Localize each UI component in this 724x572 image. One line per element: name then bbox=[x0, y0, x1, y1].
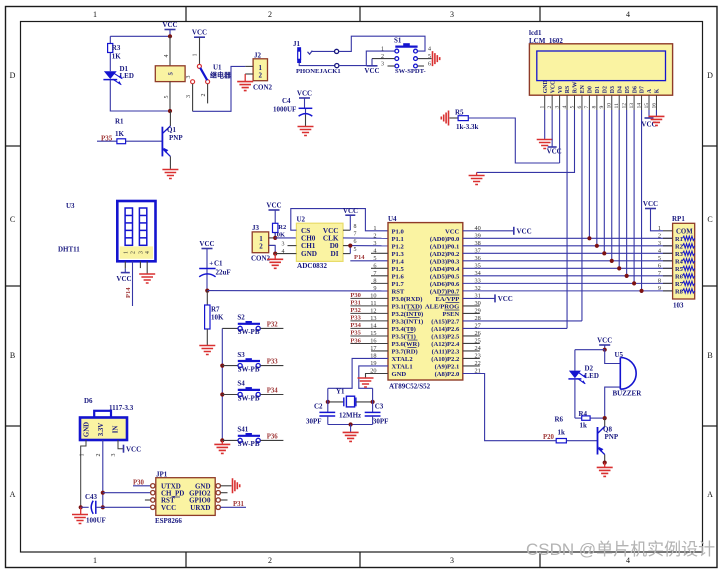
svg-text:30PF: 30PF bbox=[306, 417, 322, 425]
LED D1 bbox=[103, 53, 134, 86]
svg-text:VCC: VCC bbox=[126, 445, 141, 453]
IC U2 ADC0832 bbox=[296, 216, 343, 271]
svg-text:2: 2 bbox=[658, 232, 661, 239]
wire P30 to ESP UTXD bbox=[133, 485, 150, 487]
svg-text:3: 3 bbox=[450, 556, 454, 565]
svg-text:3: 3 bbox=[186, 95, 192, 98]
resistor R1 1K bbox=[97, 118, 162, 144]
power VCC (S1 pin2) bbox=[364, 59, 394, 76]
power VCC (buzzer) bbox=[597, 337, 612, 350]
wire LCD R/W to ground bbox=[469, 110, 575, 185]
svg-text:R/W: R/W bbox=[573, 81, 579, 93]
svg-text:GND: GND bbox=[543, 80, 549, 93]
svg-text:V0: V0 bbox=[558, 86, 564, 93]
power VCC (DHT11 pin1) bbox=[116, 261, 131, 283]
svg-text:1K: 1K bbox=[112, 53, 122, 61]
switch S2 SW-PB bbox=[222, 314, 283, 337]
svg-text:VCC: VCC bbox=[161, 504, 176, 512]
svg-text:1k: 1k bbox=[580, 422, 588, 430]
svg-text:P3.6(WR): P3.6(WR) bbox=[392, 341, 420, 348]
svg-text:22uF: 22uF bbox=[216, 269, 231, 277]
svg-text:DI: DI bbox=[331, 250, 339, 258]
resistor R3 1K bbox=[108, 36, 122, 60]
svg-text:R3: R3 bbox=[675, 251, 683, 258]
svg-text:24: 24 bbox=[475, 345, 482, 352]
ground (DHT11 pin4) bbox=[139, 261, 155, 283]
svg-text:R5: R5 bbox=[675, 266, 683, 273]
svg-text:1k: 1k bbox=[558, 429, 566, 437]
wire P2.6 to LCD RS bbox=[463, 327, 567, 329]
U4 pin name texts bbox=[392, 228, 461, 378]
svg-text:VCC: VCC bbox=[643, 200, 658, 208]
svg-text:IN: IN bbox=[113, 426, 120, 434]
wire VCC rail to R3 branch bbox=[110, 35, 170, 37]
svg-text:6: 6 bbox=[373, 262, 376, 269]
power VCC (R2) bbox=[266, 202, 281, 224]
svg-text:7: 7 bbox=[354, 232, 357, 238]
svg-text:15: 15 bbox=[644, 103, 650, 109]
junction node (Q8 emitter) bbox=[603, 461, 607, 465]
svg-text:7: 7 bbox=[658, 270, 661, 277]
svg-text:4: 4 bbox=[282, 249, 285, 255]
svg-text:C4: C4 bbox=[282, 97, 291, 105]
svg-text:U1: U1 bbox=[213, 64, 222, 72]
regulator D6 1117-3.3 bbox=[80, 397, 134, 440]
svg-text:5: 5 bbox=[373, 255, 376, 262]
svg-text:ALE/PROG: ALE/PROG bbox=[425, 304, 459, 311]
svg-text:PNP: PNP bbox=[605, 433, 619, 441]
ground (Q8) bbox=[597, 463, 613, 477]
wire RST net to U4 pin9 bbox=[207, 290, 388, 292]
power VCC (relay switch) bbox=[192, 29, 207, 65]
svg-text:(AD5)P0.5: (AD5)P0.5 bbox=[430, 273, 460, 280]
svg-text:R1: R1 bbox=[115, 118, 124, 126]
svg-text:2: 2 bbox=[373, 232, 376, 239]
D6 pin2 wire (3.3V) bbox=[96, 440, 103, 507]
svg-text:URXD: URXD bbox=[190, 504, 210, 512]
svg-text:P1.7: P1.7 bbox=[392, 281, 405, 288]
svg-text:R3: R3 bbox=[112, 44, 121, 52]
ground (R7) bbox=[199, 346, 215, 355]
resistor R6 1k bbox=[555, 416, 598, 443]
svg-text:(AD7)P0.7: (AD7)P0.7 bbox=[430, 288, 460, 295]
svg-text:RS: RS bbox=[565, 86, 571, 93]
svg-text:P32: P32 bbox=[267, 322, 279, 329]
svg-text:P20: P20 bbox=[543, 434, 555, 441]
svg-text:25: 25 bbox=[475, 338, 481, 345]
power ground (ESP GND, sideways) bbox=[220, 478, 239, 493]
wire button common bus bbox=[221, 328, 223, 440]
svg-text:P1.1: P1.1 bbox=[392, 236, 404, 243]
svg-text:AT89C52/S52: AT89C52/S52 bbox=[389, 383, 431, 391]
svg-text:VCC: VCC bbox=[266, 202, 281, 210]
LCD data bus verticals D0-D7 bbox=[589, 110, 641, 291]
svg-text:4: 4 bbox=[428, 47, 431, 53]
svg-text:U4: U4 bbox=[388, 215, 397, 223]
svg-text:6: 6 bbox=[354, 239, 357, 245]
svg-text:1: 1 bbox=[381, 47, 384, 53]
svg-text:(A11)P2.3: (A11)P2.3 bbox=[432, 349, 460, 356]
svg-text:3: 3 bbox=[186, 76, 192, 79]
junction node (D0/DI) bbox=[348, 244, 352, 248]
svg-text:P3.0(RXD): P3.0(RXD) bbox=[392, 296, 423, 303]
svg-text:5: 5 bbox=[354, 247, 357, 253]
switch S3 SW-PB bbox=[222, 351, 283, 374]
svg-text:1: 1 bbox=[540, 106, 546, 109]
svg-text:5: 5 bbox=[658, 255, 661, 262]
svg-text:6: 6 bbox=[428, 62, 431, 68]
U4 P3 stub wires with net labels bbox=[350, 292, 388, 344]
capacitor C2 30PF bbox=[306, 388, 335, 425]
svg-text:3.3V: 3.3V bbox=[98, 423, 105, 436]
svg-text:SW-PB: SW-PB bbox=[238, 440, 260, 448]
svg-text:D: D bbox=[10, 71, 16, 80]
junction node (GND row) bbox=[273, 252, 277, 256]
svg-text:VCC: VCC bbox=[199, 240, 214, 248]
svg-text:14: 14 bbox=[636, 103, 642, 109]
ESP GPIO0 stub bbox=[220, 499, 227, 501]
capacitor C1 22uF bbox=[199, 259, 230, 290]
svg-text:U2: U2 bbox=[297, 216, 306, 224]
ground (Q1 emitter) bbox=[162, 170, 178, 179]
ground (U4 GND pin20) bbox=[358, 373, 389, 387]
svg-text:EN: EN bbox=[580, 84, 586, 93]
svg-text:GND: GND bbox=[301, 250, 317, 258]
svg-text:C: C bbox=[707, 215, 712, 224]
svg-text:VCC: VCC bbox=[550, 81, 556, 94]
svg-text:13: 13 bbox=[629, 103, 635, 109]
svg-text:4: 4 bbox=[626, 10, 630, 19]
ground (C4) bbox=[298, 127, 314, 136]
svg-text:D6: D6 bbox=[632, 86, 638, 93]
svg-text:DHT11: DHT11 bbox=[58, 246, 80, 254]
svg-text:RST: RST bbox=[392, 288, 405, 295]
ground (LCD pin1) bbox=[537, 110, 553, 149]
svg-text:3: 3 bbox=[450, 10, 454, 19]
svg-text:2: 2 bbox=[381, 54, 384, 60]
svg-text:GND: GND bbox=[84, 422, 91, 437]
svg-text:2: 2 bbox=[268, 556, 272, 565]
wire U2 D0/DI to U4 P1.2 bbox=[343, 246, 388, 254]
svg-text:K: K bbox=[655, 88, 661, 93]
junction node (R4/buzzer/Q8) bbox=[603, 416, 607, 420]
svg-text:9: 9 bbox=[599, 106, 605, 109]
transistor Q8 PNP bbox=[598, 418, 619, 463]
svg-text:3: 3 bbox=[138, 251, 144, 254]
svg-text:P31: P31 bbox=[350, 300, 360, 307]
svg-text:P35: P35 bbox=[350, 330, 361, 337]
LED D2 bbox=[568, 350, 599, 418]
phone jack J1 bbox=[293, 40, 341, 75]
wire LCD EN down to P2.7 row bbox=[581, 110, 583, 321]
svg-text:17: 17 bbox=[370, 345, 376, 352]
svg-text:9: 9 bbox=[658, 285, 661, 292]
ground (LCD pin16 K) bbox=[648, 110, 664, 125]
svg-text:6: 6 bbox=[658, 262, 661, 269]
svg-text:Y1: Y1 bbox=[336, 388, 345, 396]
svg-text:VCC: VCC bbox=[364, 67, 379, 75]
wire LCD V0 to R5 bbox=[559, 110, 561, 163]
junction nodes (button bus) bbox=[220, 364, 224, 368]
relay U1 switch contacts bbox=[186, 64, 232, 104]
svg-text:VCC: VCC bbox=[116, 275, 131, 283]
transistor Q1 PNP bbox=[162, 111, 183, 169]
svg-text:12: 12 bbox=[621, 103, 627, 109]
svg-text:U3: U3 bbox=[66, 202, 75, 210]
wire LCD RS down to P2.6 row bbox=[566, 110, 568, 328]
power ground (S1 pin5, sideways) bbox=[433, 51, 440, 66]
svg-text:(A12)P2.4: (A12)P2.4 bbox=[431, 341, 460, 348]
svg-text:P3.1(TXD): P3.1(TXD) bbox=[392, 304, 423, 311]
svg-text:1k-3.3k: 1k-3.3k bbox=[456, 123, 478, 131]
svg-text:R4: R4 bbox=[675, 258, 684, 265]
svg-text:2: 2 bbox=[201, 94, 207, 97]
power VCC (LCD pin2) bbox=[547, 110, 562, 156]
svg-text:(AD2)P0.2: (AD2)P0.2 bbox=[430, 251, 460, 258]
svg-text:P34: P34 bbox=[267, 388, 279, 395]
svg-text:lcd1: lcd1 bbox=[529, 29, 542, 37]
svg-text:B: B bbox=[707, 351, 712, 360]
D6 pin1 wire (GND) bbox=[80, 440, 87, 507]
crystal Y1 12MHz bbox=[328, 388, 373, 420]
capacitor C4 1000UF bbox=[273, 97, 312, 126]
svg-text:P1.4: P1.4 bbox=[392, 258, 405, 265]
svg-text:2: 2 bbox=[547, 106, 553, 109]
U4 pin name overlines bbox=[407, 295, 459, 348]
svg-text:SW-PB: SW-PB bbox=[238, 394, 260, 402]
svg-text:P1.6: P1.6 bbox=[392, 273, 405, 280]
svg-text:P14: P14 bbox=[354, 254, 365, 261]
svg-text:30PF: 30PF bbox=[373, 417, 389, 425]
svg-text:CON2: CON2 bbox=[253, 84, 273, 92]
junction node (bottom rail) bbox=[349, 422, 353, 426]
svg-text:SW-PB: SW-PB bbox=[238, 365, 260, 373]
svg-text:1: 1 bbox=[373, 225, 376, 232]
svg-text:D4: D4 bbox=[617, 86, 623, 93]
svg-text:26: 26 bbox=[475, 330, 481, 337]
svg-text:GND: GND bbox=[392, 371, 407, 378]
svg-text:(A9)P2.1: (A9)P2.1 bbox=[435, 364, 460, 371]
power VCC (C1) bbox=[199, 240, 214, 276]
junction nodes (LCD data to P0 bus) bbox=[587, 236, 643, 293]
svg-text:23: 23 bbox=[475, 353, 481, 360]
svg-text:VCC: VCC bbox=[297, 90, 312, 98]
junction nodes (crystal) bbox=[326, 400, 330, 404]
svg-text:1: 1 bbox=[93, 556, 97, 565]
D6 pin3 to VCC bbox=[111, 440, 141, 457]
wire J3-1 to U2 CH0 bbox=[275, 237, 296, 239]
svg-text:P30: P30 bbox=[350, 292, 360, 299]
svg-text:VCC: VCC bbox=[597, 337, 612, 345]
wire D1 cathode to collector node bbox=[110, 80, 170, 111]
svg-text:1000UF: 1000UF bbox=[273, 106, 296, 114]
U4 pin stubs + numbers bbox=[370, 225, 481, 375]
svg-text:9: 9 bbox=[373, 285, 376, 292]
svg-text:(AD0)P0.0: (AD0)P0.0 bbox=[430, 236, 460, 243]
IC U4 AT89C52/S52 bbox=[388, 215, 463, 391]
wire crystal bottom rail bbox=[328, 424, 373, 426]
svg-text:P1.3: P1.3 bbox=[392, 251, 405, 258]
svg-text:12MHz: 12MHz bbox=[339, 411, 361, 419]
wire J3-2 to ground bbox=[269, 245, 276, 253]
svg-text:P1.5: P1.5 bbox=[392, 266, 405, 273]
svg-text:(AD1)P0.1: (AD1)P0.1 bbox=[430, 243, 459, 250]
svg-text:1: 1 bbox=[193, 54, 199, 57]
ground (C43) bbox=[72, 507, 88, 523]
svg-text:PHONEJACK1: PHONEJACK1 bbox=[296, 68, 341, 75]
svg-text:VCC: VCC bbox=[343, 207, 358, 215]
junction node (VCC/D2/buzzer) bbox=[603, 348, 607, 352]
svg-text:C: C bbox=[10, 215, 15, 224]
svg-text:16: 16 bbox=[651, 103, 657, 109]
svg-text:EA/VPP: EA/VPP bbox=[435, 296, 459, 303]
power VCC (U4 pin31 EA) bbox=[463, 294, 513, 303]
wire VCC to D2 bbox=[575, 349, 605, 351]
svg-text:S3: S3 bbox=[237, 351, 245, 359]
U2 right pin numbers bbox=[354, 224, 357, 253]
svg-text:Q1: Q1 bbox=[167, 126, 176, 134]
svg-text:2: 2 bbox=[268, 10, 272, 19]
svg-text:8: 8 bbox=[658, 277, 661, 284]
svg-text:VCC: VCC bbox=[445, 228, 460, 235]
svg-text:3: 3 bbox=[373, 240, 376, 247]
svg-text:B: B bbox=[10, 351, 15, 360]
svg-text:P35: P35 bbox=[101, 134, 113, 142]
svg-text:P36: P36 bbox=[267, 434, 279, 441]
resistor network RP1 103 bbox=[658, 215, 695, 310]
resistor R4 1k bbox=[575, 410, 605, 430]
wire XTAL1 bbox=[359, 366, 388, 388]
svg-text:D: D bbox=[707, 71, 713, 80]
resistor R5 1k-3.3k with sideways ground bbox=[441, 109, 559, 164]
power VCC (U2 pin8) bbox=[343, 207, 358, 230]
svg-text:4: 4 bbox=[164, 55, 170, 58]
svg-text:P3.3(INT1): P3.3(INT1) bbox=[392, 319, 424, 326]
svg-text:D1: D1 bbox=[595, 86, 601, 93]
svg-text:8: 8 bbox=[354, 224, 357, 230]
svg-text:PNP: PNP bbox=[169, 134, 183, 142]
buzzer U5 bbox=[605, 350, 643, 418]
capacitor C3 30PF bbox=[365, 388, 389, 425]
svg-text:6: 6 bbox=[577, 106, 583, 109]
svg-text:继电器: 继电器 bbox=[210, 71, 232, 80]
LCD pin name labels bbox=[543, 80, 661, 93]
svg-text:D3: D3 bbox=[610, 86, 616, 93]
svg-text:(A8)P2.0: (A8)P2.0 bbox=[435, 371, 460, 378]
svg-text:D7: D7 bbox=[640, 86, 646, 93]
svg-text:CH1: CH1 bbox=[301, 242, 316, 250]
sensor U3 DHT11 bbox=[58, 201, 156, 261]
svg-text:30: 30 bbox=[475, 300, 481, 307]
svg-text:103: 103 bbox=[673, 302, 684, 310]
wire J1 ring to S1 pin1 bbox=[339, 51, 395, 66]
ground (J3/U2) bbox=[267, 254, 283, 269]
svg-text:P3.5(T1): P3.5(T1) bbox=[392, 334, 416, 341]
wire 3.3V to CH_PD bbox=[103, 492, 151, 494]
wire P2.7 to LCD EN bbox=[463, 320, 582, 322]
LCD lcd1 LCM_1602 bbox=[529, 29, 673, 95]
svg-text:P36: P36 bbox=[350, 337, 361, 344]
svg-text:XTAL1: XTAL1 bbox=[392, 364, 413, 371]
ground (J2 pin2) bbox=[237, 74, 253, 91]
capacitor C43 100UF bbox=[81, 493, 106, 525]
svg-text:4: 4 bbox=[562, 106, 568, 109]
svg-text:A: A bbox=[707, 490, 713, 499]
svg-text:R7: R7 bbox=[675, 281, 684, 288]
svg-text:CSDN @单片机实例设计: CSDN @单片机实例设计 bbox=[526, 540, 715, 559]
svg-text:2: 2 bbox=[259, 243, 263, 251]
ESP GPIO2 stub bbox=[220, 492, 227, 494]
svg-text:BUZZER: BUZZER bbox=[613, 390, 643, 398]
connector J2 CON2 bbox=[245, 52, 272, 92]
svg-text:D0: D0 bbox=[588, 86, 594, 93]
svg-text:P33: P33 bbox=[350, 315, 361, 322]
svg-text:S4: S4 bbox=[237, 380, 245, 388]
ESP RST overline bbox=[173, 496, 181, 498]
svg-text:2: 2 bbox=[259, 72, 263, 80]
switch S41 SW-PB bbox=[222, 426, 283, 449]
wire XTAL2 bbox=[328, 358, 388, 388]
svg-text:C2: C2 bbox=[314, 403, 323, 411]
junction nodes (3.3V rail) bbox=[101, 491, 105, 495]
svg-text:SW-SPDT-: SW-SPDT- bbox=[395, 68, 426, 75]
ground (crystal) bbox=[343, 425, 359, 442]
svg-text:C1: C1 bbox=[214, 259, 223, 267]
svg-text:3: 3 bbox=[282, 242, 285, 248]
svg-text:(A13)P2.5: (A13)P2.5 bbox=[431, 334, 460, 341]
svg-text:RP1: RP1 bbox=[672, 215, 685, 223]
svg-text:7: 7 bbox=[584, 106, 590, 109]
svg-text:11: 11 bbox=[614, 103, 620, 109]
svg-text:D6: D6 bbox=[84, 397, 93, 405]
wire ESP URXD (net P31) bbox=[220, 506, 246, 508]
svg-text:(AD4)P0.4: (AD4)P0.4 bbox=[430, 266, 460, 273]
power VCC (relay rail) bbox=[162, 21, 177, 36]
svg-text:R7: R7 bbox=[211, 306, 220, 314]
wire U2 CS to U4 P1.0 bbox=[291, 209, 388, 231]
wire U2 CLK to U4 P1.1 bbox=[343, 237, 388, 239]
svg-text:ESP8266: ESP8266 bbox=[155, 517, 182, 525]
svg-text:PSEN: PSEN bbox=[442, 311, 459, 318]
svg-text:C3: C3 bbox=[375, 403, 384, 411]
svg-text:VCC: VCC bbox=[162, 21, 177, 29]
svg-text:1: 1 bbox=[80, 454, 86, 457]
ground (button bus) bbox=[214, 440, 230, 453]
junction node (coil / LED / Q1 collector) bbox=[168, 109, 172, 113]
wire 3.3V to ESP VCC bbox=[103, 506, 151, 508]
svg-text:1: 1 bbox=[123, 251, 129, 254]
svg-text:(A14)P2.6: (A14)P2.6 bbox=[431, 326, 460, 333]
svg-text:5: 5 bbox=[569, 106, 575, 109]
svg-text:D2: D2 bbox=[603, 86, 609, 93]
svg-text:(AD6)P0.6: (AD6)P0.6 bbox=[430, 281, 460, 288]
svg-text:5: 5 bbox=[428, 54, 431, 60]
wire DHT11 data (net P14) bbox=[132, 261, 134, 306]
svg-text:8: 8 bbox=[373, 277, 376, 284]
power VCC (C4) bbox=[297, 90, 312, 116]
svg-text:1K: 1K bbox=[115, 130, 125, 138]
svg-text:10: 10 bbox=[607, 103, 613, 109]
switch S4 SW-PB bbox=[222, 380, 283, 403]
svg-text:R8: R8 bbox=[675, 288, 683, 295]
wire P14 stub to U4 pin5 bbox=[350, 260, 388, 262]
svg-text:P34: P34 bbox=[350, 322, 361, 329]
svg-text:S2: S2 bbox=[237, 314, 245, 322]
svg-text:R6: R6 bbox=[555, 416, 564, 424]
svg-text:VCC: VCC bbox=[498, 295, 513, 303]
svg-text:ADC0832: ADC0832 bbox=[297, 262, 327, 270]
switch S1 SW-SPDT bbox=[381, 37, 432, 76]
